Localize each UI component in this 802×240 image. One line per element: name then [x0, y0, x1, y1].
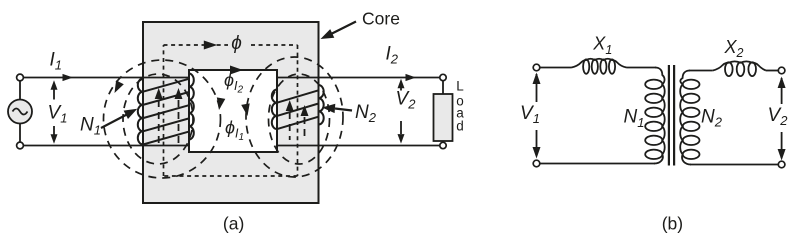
wire top mid-right (b)	[689, 70, 713, 72]
flux path phi (dashed rectangle)	[164, 45, 298, 176]
label phi	[231, 33, 242, 54]
ac source	[8, 81, 32, 143]
inductor X1	[572, 59, 627, 74]
voltage arrows V1 (b)	[533, 73, 541, 159]
arrow flux over window top	[230, 66, 243, 75]
svg-text:(a): (a)	[223, 214, 244, 234]
terminal bottom left (b)	[533, 160, 540, 167]
label V2 (b)	[768, 105, 789, 128]
leakage flux loop N2 inner	[269, 74, 330, 164]
core window	[189, 70, 277, 152]
label N1	[80, 115, 101, 138]
flux arrow up in N2 leg (left)	[286, 100, 294, 140]
winding N1 coil on left limb	[138, 74, 194, 145]
svg-text:V2: V2	[768, 105, 789, 128]
label phi_I2	[224, 70, 244, 96]
flux arrow up in N2 leg (right)	[301, 105, 309, 140]
winding N2 coil on right limb	[272, 85, 324, 129]
label V1 (b)	[520, 103, 540, 126]
svg-text:I1: I1	[50, 50, 63, 73]
terminal bottom left	[17, 142, 24, 149]
terminal bottom right (load)	[440, 142, 446, 148]
terminal top left	[17, 74, 24, 81]
label V2	[396, 89, 417, 112]
terminal top right (b)	[778, 67, 785, 74]
svg-text:N1: N1	[624, 107, 645, 130]
arrow N2 pointer	[322, 104, 352, 113]
inductor X2	[713, 61, 766, 76]
wire bottom left (source to N1)	[20, 145, 189, 147]
wire top right (N2 to load)	[277, 77, 443, 79]
arrow flux phi direction	[204, 41, 218, 50]
voltage arrows V2 (b)	[778, 77, 786, 161]
voltage arrows V1	[51, 80, 58, 144]
leakage flux loop N1 inner	[123, 74, 193, 164]
label (b)	[662, 214, 683, 234]
terminal bottom right (b)	[778, 161, 785, 168]
svg-text:Core: Core	[362, 9, 400, 29]
wire bottom right (b)	[690, 164, 778, 166]
label (a)	[223, 214, 244, 234]
arrow current I1	[63, 74, 74, 81]
svg-text:N1: N1	[80, 115, 101, 138]
leakage arrow down in window (phi_I1 path)	[241, 103, 250, 116]
svg-text:ϕ: ϕ	[231, 33, 242, 54]
label X2	[724, 37, 744, 60]
core	[143, 22, 319, 203]
leakage flux loop N1 outer	[104, 60, 221, 178]
terminal top right (load)	[440, 74, 446, 80]
wire top left (b)	[540, 67, 572, 69]
svg-text:X2: X2	[724, 37, 744, 60]
svg-text:V1: V1	[48, 102, 68, 125]
svg-text:V2: V2	[396, 89, 417, 112]
svg-text:L: L	[456, 79, 464, 94]
flux arrow up in N1 leg (right)	[175, 88, 183, 147]
wire bottom right (N2 to load)	[277, 145, 443, 147]
winding N2 (b)	[680, 71, 699, 165]
flux arrow up in N1 leg (left)	[155, 88, 163, 147]
wire top right (b)	[766, 70, 778, 72]
load resistor	[434, 81, 453, 142]
label I2	[386, 44, 399, 67]
arrow N1 pointer	[101, 109, 137, 128]
leakage arrow down in window (phi_I2 path)	[217, 97, 226, 110]
voltage arrows V2	[398, 79, 405, 144]
label N2	[355, 102, 377, 125]
svg-text:d: d	[456, 119, 464, 134]
svg-text:I2: I2	[386, 44, 399, 67]
svg-text:X1: X1	[592, 34, 612, 57]
winding N1 (b)	[645, 68, 665, 164]
label phi_I1	[225, 117, 244, 143]
wire top left (source to N1)	[20, 77, 189, 79]
wire top mid-left (b)	[627, 67, 657, 69]
terminal top left (b)	[533, 64, 540, 71]
label I1	[50, 50, 63, 73]
svg-text:N2: N2	[701, 107, 723, 130]
arrow core pointer	[321, 22, 357, 40]
wire bottom left (b)	[540, 163, 655, 165]
transformer core lines (b)	[669, 65, 674, 166]
label N2 (b)	[701, 107, 723, 130]
label X1	[592, 34, 612, 57]
leakage arrow down, left of N1	[115, 80, 124, 93]
arrow current I2	[406, 74, 417, 81]
svg-text:N2: N2	[355, 102, 377, 125]
label N1 (b)	[624, 107, 645, 130]
label Core	[362, 9, 400, 29]
svg-text:(b): (b)	[662, 214, 683, 234]
leakage flux loop N2 outer	[246, 57, 343, 177]
label Load	[456, 79, 464, 134]
label V1	[48, 102, 68, 125]
svg-text:V1: V1	[520, 103, 540, 126]
